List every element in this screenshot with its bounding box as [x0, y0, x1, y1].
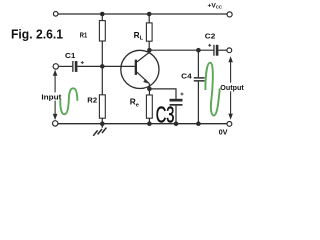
wire RL bottom lead: [148, 41, 150, 50]
node C3 bottom: [174, 121, 179, 126]
ground: [93, 124, 106, 136]
terminal +Vcc: [227, 12, 232, 17]
input signal sine: [60, 88, 77, 114]
wire collector row: [149, 49, 213, 51]
wire R2 top lead: [101, 66, 103, 94]
node R1 top: [100, 12, 105, 17]
wire Re bottom lead: [148, 118, 150, 124]
node R2 bottom: [100, 121, 105, 126]
svg-text:R2: R2: [87, 96, 97, 105]
wire C2 to output terminal: [218, 49, 227, 51]
wire C4 top lead: [197, 50, 199, 77]
capacitor C3: [170, 99, 183, 106]
terminal output: [227, 48, 232, 53]
svg-text:C2: C2: [205, 32, 216, 41]
wire bottom 0V rail: [58, 123, 227, 125]
terminal input bottom: [53, 121, 58, 126]
polarity + of C3: [181, 93, 184, 96]
transistor Q1: [121, 50, 159, 89]
terminal top-left: [53, 12, 58, 17]
node RL top: [147, 12, 152, 17]
wire C4 bottom lead: [197, 82, 199, 124]
svg-text:C4: C4: [181, 72, 192, 81]
wire R1 top lead: [101, 14, 103, 21]
resistor R1: [99, 21, 105, 41]
svg-text:+VCC: +VCC: [208, 2, 223, 9]
node Re bottom: [147, 121, 152, 126]
svg-text:Re: Re: [130, 97, 139, 109]
node base junction: [100, 64, 105, 69]
wire C3 bottom lead: [175, 106, 177, 124]
wire RL top lead: [148, 14, 150, 23]
svg-text:R1: R1: [80, 30, 88, 39]
output arrow (double headed): [228, 56, 233, 119]
input arrow (double headed): [53, 70, 58, 120]
capacitor C4: [194, 77, 205, 82]
node C4 bottom: [196, 121, 201, 126]
svg-text:Output: Output: [220, 85, 244, 92]
wire base row left: [59, 65, 73, 67]
resistor RL: [146, 23, 152, 41]
node collector: [147, 48, 152, 53]
polarity + of C2: [208, 44, 211, 47]
svg-text:Input: Input: [41, 94, 62, 101]
node emitter: [147, 87, 152, 92]
svg-text:Fig. 2.6.1: Fig. 2.6.1: [11, 27, 63, 42]
resistor R2: [99, 95, 105, 118]
wire base row right: [77, 65, 134, 67]
svg-text:0V: 0V: [219, 128, 228, 137]
terminal input top: [53, 64, 58, 69]
capacitor C2: [213, 45, 218, 56]
wire emitter row to C3: [149, 89, 176, 99]
svg-text:C1: C1: [65, 51, 76, 60]
wire top supply rail: [58, 13, 228, 15]
wire R1 bottom lead: [101, 41, 103, 66]
node C4 junction: [196, 48, 201, 53]
output signal sine: [205, 63, 219, 116]
polarity + of C1: [81, 61, 84, 64]
wire R2 bottom lead: [101, 118, 103, 124]
terminal 0V: [227, 122, 232, 127]
svg-text:RL: RL: [134, 30, 144, 42]
wire Re top lead: [148, 89, 150, 95]
capacitor C1: [72, 61, 77, 72]
resistor Re: [146, 95, 152, 118]
